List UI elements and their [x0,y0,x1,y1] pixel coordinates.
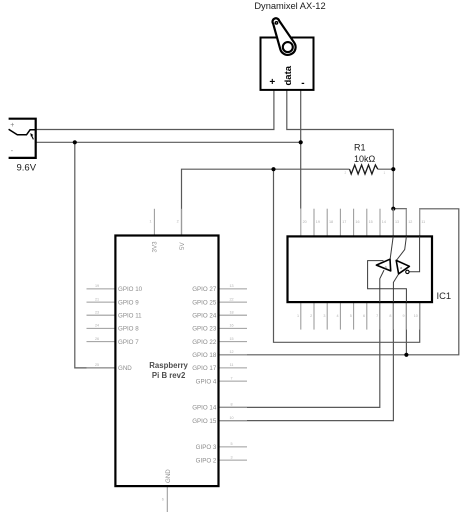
servo horn [273,18,296,55]
wire 5V rail from Pi 5V pin to R1 [182,169,394,235]
svg-text:15: 15 [229,337,233,341]
svg-text:GPIO 24: GPIO 24 [192,312,217,319]
svg-text:12: 12 [408,220,412,224]
svg-text:3: 3 [323,314,325,318]
svg-text:GPIO 11: GPIO 11 [118,312,142,319]
svg-text:3: 3 [230,455,232,459]
node junction data at IC1 pin 13 [391,207,395,211]
svg-text:10: 10 [414,314,418,318]
svg-text:Raspberry: Raspberry [149,361,188,370]
svg-text:GPIO 25: GPIO 25 [192,299,217,306]
op-amp buffer IC1 body [288,236,452,302]
svg-text:GIPO 3: GIPO 3 [196,444,217,451]
wire GPIO 15 to IC1 pin 8 [219,302,394,421]
buffer A enable bubble [406,270,409,273]
svg-text:17: 17 [342,220,346,224]
wire servo - down to IC1 pin 20 [300,90,302,209]
svg-text:b: b [385,266,387,270]
wire 5V branch to IC1 pin 10 [274,169,420,342]
svg-text:GND: GND [118,365,132,372]
svg-text:GPIO 23: GPIO 23 [192,326,217,333]
svg-text:18: 18 [229,310,233,314]
wire data node to IC1 pins 13 and 12 [393,209,406,237]
svg-text:GPIO 27: GPIO 27 [192,286,217,293]
wire GPIO 18 to IC1 pin 9 and pin 11 [219,209,459,355]
svg-text:data: data [283,65,294,85]
svg-text:1: 1 [384,171,386,175]
wire IC1 internal buffer A to pin 8 [393,274,398,302]
svg-text:21: 21 [95,297,99,301]
svg-text:16: 16 [229,324,233,328]
svg-text:8: 8 [389,314,391,318]
svg-text:10: 10 [229,416,233,420]
svg-text:+: + [269,77,275,88]
wire IC1 internal input to buffer B [390,236,393,259]
microcontroller Raspberry Pi B rev2 [115,236,218,487]
svg-text:GPIO 4: GPIO 4 [196,378,217,385]
svg-text:25: 25 [95,363,99,367]
svg-text:GPIO 9: GPIO 9 [118,299,139,306]
svg-text:IC1: IC1 [437,290,452,301]
Raspberry Pi right pin stubs [219,289,248,460]
svg-text:7: 7 [230,376,232,380]
wire battery - to Raspberry Pi GND [75,142,116,368]
svg-text:23: 23 [95,310,99,314]
svg-text:R1: R1 [354,143,366,153]
svg-text:GPIO 17: GPIO 17 [192,365,217,372]
svg-text:8: 8 [230,403,232,407]
svg-text:24: 24 [95,324,99,328]
svg-text:9.6V: 9.6V [17,163,37,174]
svg-text:10kΩ: 10kΩ [354,154,376,164]
svg-text:6: 6 [363,314,365,318]
svg-text:1: 1 [150,220,152,224]
svg-text:GIPO 2: GIPO 2 [196,457,217,464]
svg-text:7: 7 [376,314,378,318]
svg-text:26: 26 [95,337,99,341]
IC1 pin numbers top [303,220,426,224]
svg-text:15: 15 [369,220,373,224]
servo M1 Dynamixel AX-12 [261,18,314,90]
IC1 pin stubs top [301,209,420,237]
svg-text:22: 22 [229,297,233,301]
svg-text:11: 11 [421,220,425,224]
node junction 5V branch [271,167,275,171]
buffer A triangle [396,260,409,273]
buffer B triangle [376,259,390,271]
wire IC1 internal enable to bubble [409,236,419,271]
svg-text:16: 16 [355,220,359,224]
IC1 pin numbers bottom [297,314,418,318]
svg-text:3V3: 3V3 [152,241,159,253]
svg-text:12: 12 [229,350,233,354]
svg-text:2: 2 [177,220,179,224]
svg-text:GND: GND [165,469,172,483]
svg-text:19: 19 [316,220,320,224]
svg-text:Dynamixel AX-12: Dynamixel AX-12 [254,1,325,11]
svg-text:5V: 5V [179,242,186,250]
wire IC1 internal buffer B to pin 7 [380,270,384,302]
Raspberry Pi left pin numbers [95,284,99,367]
svg-text:GPIO 10: GPIO 10 [118,286,143,293]
svg-text:GPIO 15: GPIO 15 [192,418,217,425]
wire IC1 internal buffer B output loop to pin 9 [368,261,407,303]
svg-text:19: 19 [95,284,99,288]
wire servo data to pull-up node [287,90,394,209]
svg-text:9: 9 [403,314,405,318]
svg-text:+: + [10,122,14,129]
resistor R1 [345,143,386,175]
wire IC1 internal input to buffer A [396,236,406,260]
wire battery - horizontal [36,141,301,143]
svg-text:Pi B rev2: Pi B rev2 [152,371,186,380]
svg-text:11: 11 [230,363,234,367]
svg-text:GPIO 8: GPIO 8 [118,326,139,333]
Raspberry Pi top pin stub 3V3 pin 1 [153,209,155,236]
node junction battery minus / GND [73,140,77,144]
svg-text:6: 6 [162,498,164,502]
Raspberry Pi left pin labels [118,286,143,372]
svg-text:GPIO 18: GPIO 18 [192,352,217,359]
svg-text:1: 1 [297,314,299,318]
svg-text:20: 20 [303,220,307,224]
battery BT1 9.6V [9,119,37,174]
wire servo + to battery + [36,90,274,130]
Raspberry Pi bottom GND pin stub [166,486,168,512]
svg-text:13: 13 [229,284,233,288]
node junction GPIO18 / IC1 pin 9 [404,353,408,357]
svg-text:4: 4 [337,314,339,318]
svg-text:2: 2 [310,314,312,318]
svg-text:GPIO 7: GPIO 7 [118,339,139,346]
svg-text:2: 2 [345,171,347,175]
svg-text:5: 5 [350,314,352,318]
wire GPIO 14 to IC1 pin 7 [219,302,380,407]
svg-text:14: 14 [382,220,386,224]
svg-text:GPIO 22: GPIO 22 [192,339,217,346]
Raspberry Pi left pin stubs [87,289,116,368]
node junction servo minus / battery minus [299,140,303,144]
svg-text:a: a [400,266,402,270]
node junction R1 / data [391,167,395,171]
svg-text:-: - [301,78,304,89]
svg-text:18: 18 [329,220,333,224]
svg-text:13: 13 [395,220,399,224]
IC1 pin stubs bottom [301,302,420,330]
Raspberry Pi right pin numbers [229,284,233,459]
svg-text:GPIO 14: GPIO 14 [192,405,217,412]
Raspberry Pi right pin labels [192,286,217,464]
Raspberry Pi top pin stub 5V pin 2 [181,209,183,236]
wire IC1 pin 9 down to GPIO 18 line [405,302,407,355]
svg-text:5: 5 [230,442,232,446]
